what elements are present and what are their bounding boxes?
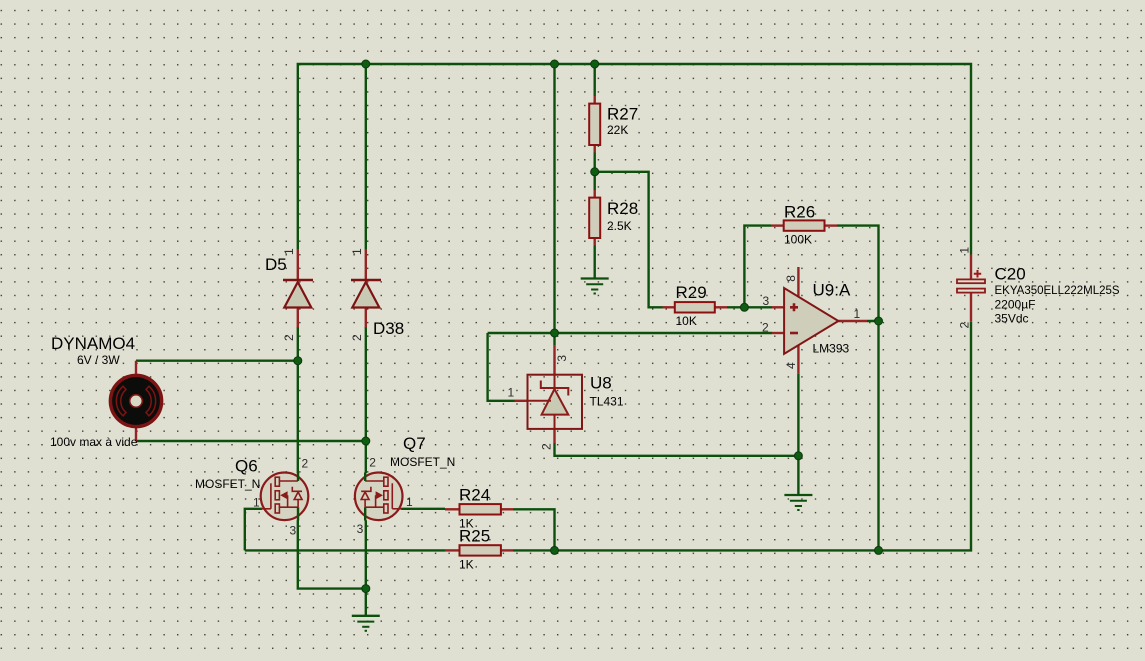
svg-text:1: 1: [508, 386, 515, 400]
svg-text:100K: 100K: [784, 233, 812, 247]
op-amp U9:A: [772, 267, 867, 374]
svg-text:2: 2: [958, 322, 972, 329]
svg-text:LM393: LM393: [813, 342, 850, 356]
svg-text:D5: D5: [265, 255, 287, 274]
svg-text:R25: R25: [459, 527, 490, 546]
svg-text:U8: U8: [590, 374, 612, 393]
wire R27-R28 mid: [594, 153, 596, 191]
svg-text:2200µF: 2200µF: [995, 298, 1036, 312]
svg-text:MOSFET_N: MOSFET_N: [195, 477, 260, 491]
wire Q6 gate loop down to bottom line: [245, 509, 262, 551]
wire R26 feedback loop left: [744, 226, 771, 308]
wire top rail with left drop to D5 and right drop to C20: [298, 64, 971, 255]
svg-text:2: 2: [369, 456, 376, 470]
mosfet Q6: [261, 473, 309, 521]
svg-text:10K: 10K: [676, 314, 697, 328]
junction top rail / R27 column: [591, 60, 599, 68]
ground below op-amp pin4 node: [784, 495, 812, 510]
resistor R26: [771, 220, 837, 230]
svg-text:3: 3: [290, 523, 297, 537]
svg-text:TL431: TL431: [590, 395, 624, 409]
junction dynamo top / D5 column: [294, 357, 302, 365]
svg-text:22K: 22K: [607, 123, 628, 137]
wire top rail to U8 node: [553, 64, 555, 333]
wire U8 ref loop: [488, 333, 515, 401]
resistor R25: [445, 545, 513, 555]
svg-text:R28: R28: [607, 199, 638, 218]
svg-text:1: 1: [958, 247, 972, 254]
junction top rail / D38 column: [362, 60, 370, 68]
wire bottom line right of R25 up to C20: [513, 322, 971, 551]
svg-text:DYNAMO4: DYNAMO4: [51, 334, 135, 353]
svg-text:2: 2: [540, 443, 554, 450]
wire U8 node to op-amp pin 2: [488, 332, 772, 334]
junction op-amp output node: [875, 317, 883, 325]
wire U8 pin2 to ground node: [555, 443, 799, 494]
svg-text:35Vdc: 35Vdc: [995, 312, 1029, 326]
diode D5: [283, 249, 313, 328]
svg-text:6V / 3W: 6V / 3W: [77, 353, 120, 367]
junction U8 cathode-ref node: [551, 329, 559, 337]
wire D38 column below top rail: [365, 64, 367, 249]
dynamo DYNAMO4: [110, 361, 161, 441]
svg-text:U9:A: U9:A: [813, 281, 851, 300]
svg-text:D38: D38: [373, 319, 404, 338]
wire D38 anode down to Q7 drain: [365, 327, 367, 473]
svg-text:Q7: Q7: [403, 434, 426, 453]
wire bottom line left of R25: [245, 549, 445, 551]
junction U8 anode / op-amp pin 4 ground node: [794, 452, 802, 460]
resistor R28: [589, 190, 600, 246]
capacitor C20: [957, 255, 985, 322]
wire Q6 source to ground node: [298, 520, 366, 588]
svg-text:EKYA350ELL222ML25S: EKYA350ELL222ML25S: [995, 285, 1120, 297]
svg-text:R24: R24: [459, 486, 490, 505]
ground below Q6/Q7 sources: [352, 616, 380, 631]
wire Q7 source down to ground: [365, 520, 367, 615]
wire D5 anode down to Q6 drain: [297, 327, 299, 473]
svg-text:8: 8: [784, 275, 798, 282]
svg-text:R26: R26: [784, 203, 815, 222]
shunt reference U8 TL431: [515, 345, 583, 443]
wire R29 right to op-amp pin 3: [727, 306, 772, 308]
junction R29 / R26 at op-amp pin 3: [740, 303, 748, 311]
junction dynamo bottom / D38 column: [362, 437, 370, 445]
wire op-amp output to bottom line: [867, 321, 879, 550]
svg-text:MOSFET_N: MOSFET_N: [390, 455, 455, 469]
svg-text:100v max à vide: 100v max à vide: [50, 435, 138, 449]
junction output column / bottom line: [875, 546, 883, 554]
wire dynamo bottom to D38 column: [136, 440, 366, 442]
junction top rail / U8 column: [551, 60, 559, 68]
wire R26 right to output column: [837, 226, 879, 321]
resistor R29: [663, 302, 728, 312]
svg-text:2.5K: 2.5K: [607, 219, 632, 233]
svg-text:3: 3: [357, 522, 364, 536]
junction Q6-Q7 source ground node: [362, 585, 370, 593]
svg-text:2: 2: [350, 334, 364, 341]
svg-text:C20: C20: [995, 265, 1026, 284]
wire op-amp pin4 to ground node: [797, 374, 799, 456]
wire R28 bottom to ground: [594, 246, 596, 279]
svg-text:Q6: Q6: [235, 457, 258, 476]
svg-text:1: 1: [282, 248, 296, 255]
ground below R28: [581, 279, 609, 294]
svg-text:1: 1: [406, 495, 413, 509]
svg-text:1: 1: [350, 248, 364, 255]
wire R24 right to bottom line: [513, 509, 555, 550]
junction R27-R28 divider tap: [591, 168, 599, 176]
wire U8 pin3 stub link: [553, 333, 555, 345]
mosfet Q7: [355, 473, 403, 521]
svg-text:3: 3: [555, 355, 569, 362]
wire dynamo top to D5 column: [136, 360, 298, 362]
svg-text:2: 2: [302, 456, 309, 470]
svg-text:R27: R27: [607, 105, 638, 124]
svg-text:2: 2: [282, 334, 296, 341]
svg-text:2: 2: [762, 321, 769, 335]
wire divider tap to R29: [595, 172, 663, 307]
resistor R27: [589, 96, 600, 153]
svg-text:R29: R29: [676, 283, 707, 302]
svg-text:4: 4: [784, 362, 798, 369]
wire R27 column top: [594, 64, 596, 96]
wire Q7 gate to R24: [401, 508, 445, 510]
svg-text:1: 1: [253, 496, 260, 510]
svg-text:1K: 1K: [459, 558, 474, 572]
svg-text:3: 3: [763, 294, 770, 308]
resistor R24: [445, 504, 513, 514]
svg-text:1: 1: [854, 307, 861, 321]
diode D38: [351, 249, 381, 328]
junction R24-R25 right node: [551, 546, 559, 554]
